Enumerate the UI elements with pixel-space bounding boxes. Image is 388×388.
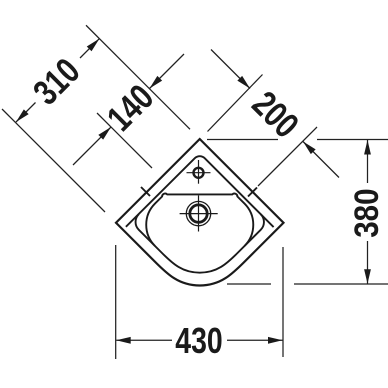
dimension 380: line segment upper xyxy=(367,140,369,183)
dimension 140: arrow upper xyxy=(150,76,163,89)
dimension 380: arrow bottom xyxy=(364,269,371,284)
tick mark on left edge (200 reference) xyxy=(141,187,150,196)
dimension 200: extension line from right tick xyxy=(258,127,317,186)
faucet hole crosshair horizontal xyxy=(187,172,211,174)
dimension 200: extension line from apex up-right xyxy=(208,75,263,132)
dimension 200: arrow lower xyxy=(303,142,316,155)
drain crosshair vertical xyxy=(198,196,200,232)
dimension 310: line segment upper xyxy=(80,39,99,58)
dimension 310: arrow upper-right xyxy=(87,39,100,52)
faucet hole circle xyxy=(194,168,204,178)
dimension 380: top extension line left part xyxy=(207,139,278,141)
dimension 380: bottom extension line left part xyxy=(227,283,271,285)
dimension 380: line segment lower xyxy=(367,241,369,284)
dimension 430: arrow right xyxy=(268,337,283,344)
dimension 310/140: extension line through apex xyxy=(86,25,190,129)
tick mark on right edge (200 reference) xyxy=(248,188,257,197)
drain inner circle xyxy=(190,205,207,222)
dimension 310: line segment lower xyxy=(16,103,36,123)
svg-text:380: 380 xyxy=(347,188,385,237)
dimension 200: arrow upper xyxy=(237,76,250,89)
dimension 430: line segment right xyxy=(227,339,283,341)
dimension 430: line segment left xyxy=(116,339,172,341)
dimension 430: left extension line xyxy=(115,245,117,359)
faucet hole crosshair vertical xyxy=(198,160,200,184)
dimension 140: extension line through drain xyxy=(97,113,152,168)
rim inner edge (tap deck shelf line) xyxy=(126,156,274,227)
dimension 380: top extension line right part xyxy=(317,139,388,141)
svg-text:430: 430 xyxy=(175,321,222,361)
dimension 200: outside leader upper xyxy=(211,50,250,89)
drain outer circle xyxy=(186,201,210,225)
dimension 140: outside leader upper xyxy=(150,54,185,89)
dimension 380: bottom extension line right part xyxy=(294,283,388,285)
bowl top edge xyxy=(146,194,253,246)
dimension 430: right extension line xyxy=(282,247,284,357)
washbasin outer outline xyxy=(116,139,284,286)
dimension 200: outside leader lower xyxy=(303,142,339,178)
dimension 310: arrow lower-left xyxy=(16,109,29,122)
dimension 140: arrow lower xyxy=(98,127,111,140)
dimension 140: outside leader lower xyxy=(73,127,111,165)
dimension 310: extension line through left corner xyxy=(2,109,105,212)
dimension 380: arrow top xyxy=(364,140,371,155)
bowl front edge line xyxy=(136,214,264,273)
dimension 430: arrow left xyxy=(116,337,131,344)
drain crosshair horizontal xyxy=(180,213,218,215)
